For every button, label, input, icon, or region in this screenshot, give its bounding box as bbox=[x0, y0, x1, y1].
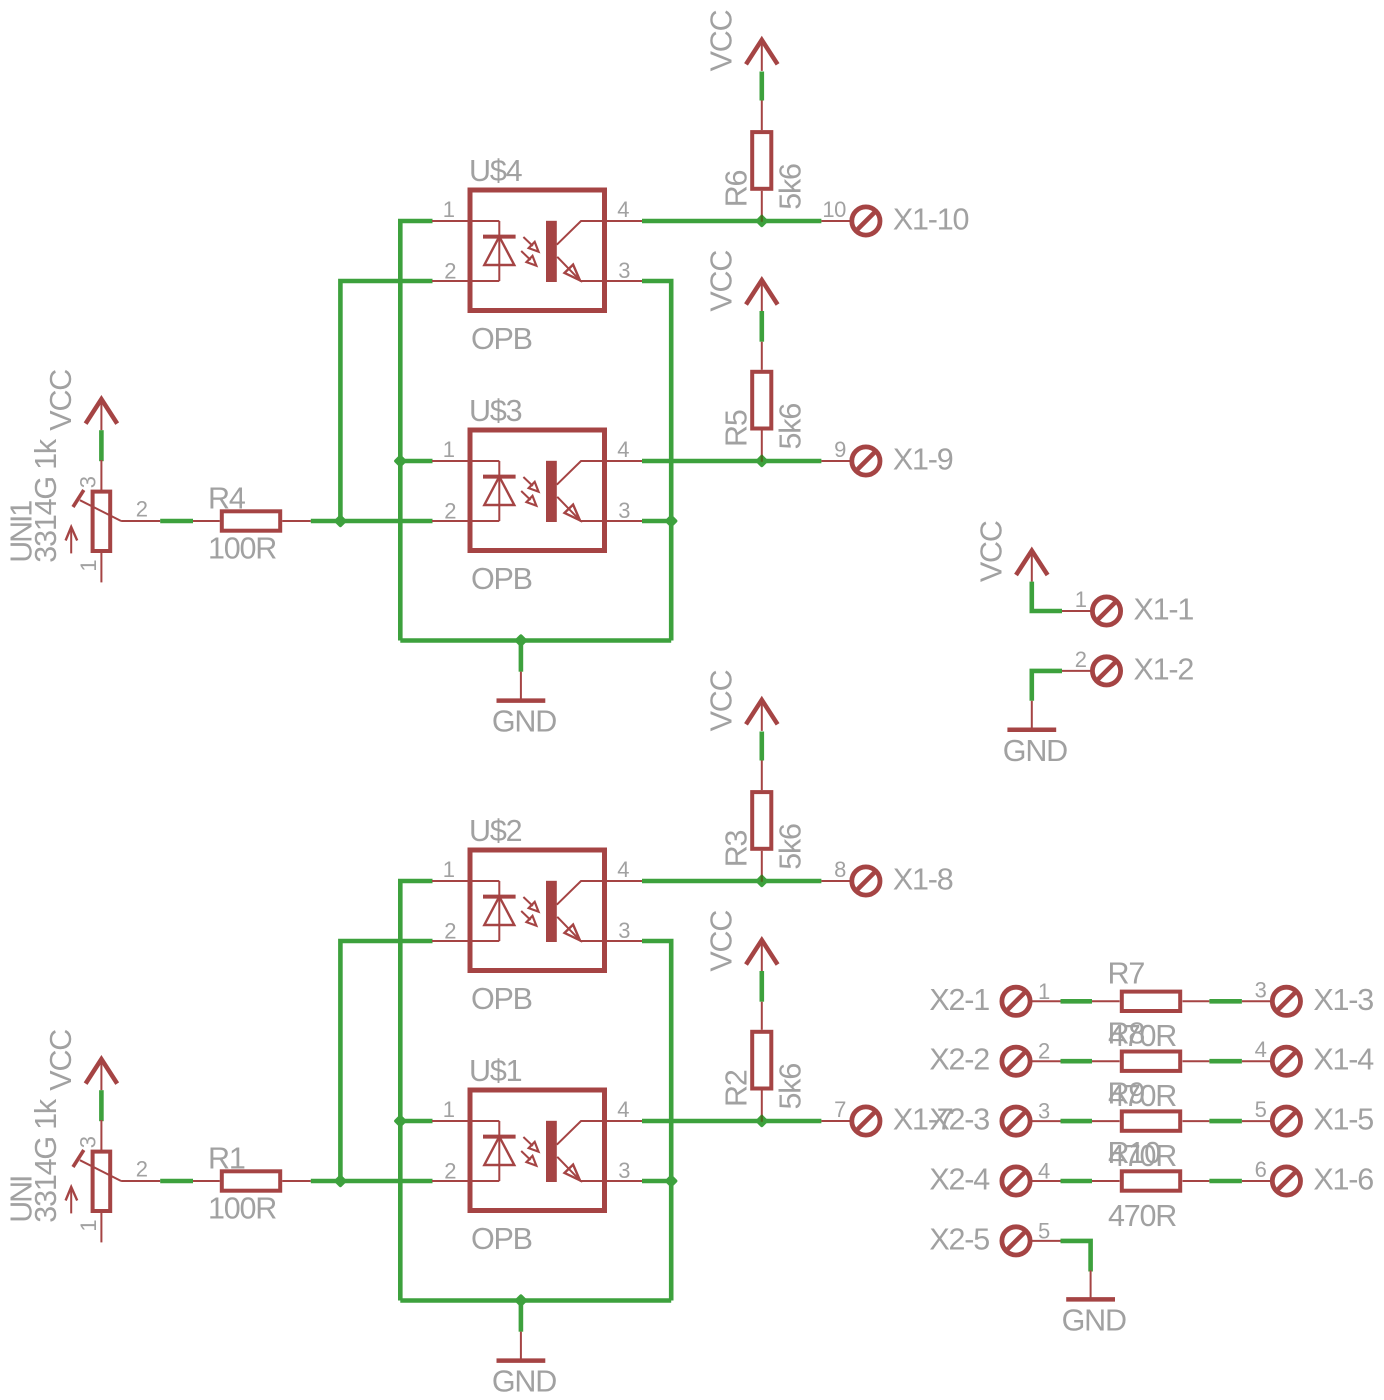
pad X2-2 bbox=[1002, 1047, 1030, 1075]
svg-text:X1-3: X1-3 bbox=[1313, 983, 1373, 1017]
svg-text:5: 5 bbox=[1255, 1097, 1267, 1122]
label X1-1 bbox=[1134, 593, 1194, 627]
svg-text:OPB: OPB bbox=[471, 562, 532, 596]
svg-text:5k6: 5k6 bbox=[773, 1064, 807, 1110]
pin stub R1 left bbox=[193, 1180, 220, 1182]
label X1-6 bbox=[1313, 1163, 1373, 1197]
optocoupler U$4 bbox=[432, 190, 643, 311]
pin 2 label of UNI1 bbox=[136, 497, 148, 522]
label R3 bbox=[720, 830, 754, 867]
resistor R4 bbox=[222, 511, 280, 530]
label GND of ground GND bbox=[492, 1365, 556, 1399]
ground GND at X1-2 bbox=[1007, 701, 1056, 730]
pin stub R2 bottom bbox=[761, 1090, 763, 1121]
wire VCC to UNI1 pin 3 bbox=[99, 430, 104, 461]
wire VCC to pad X1-1 bbox=[1032, 582, 1062, 611]
wire VCC to UNI pin 3 bbox=[99, 1090, 104, 1121]
resistor R5 bbox=[752, 372, 771, 429]
label GND of ground GND at X1-2 bbox=[1003, 734, 1067, 768]
VCC symbol above R2 bbox=[746, 940, 778, 971]
wire R9 to X1-5 bbox=[1209, 1119, 1242, 1124]
wire U$2 pin 4 to pad X1-8 bbox=[642, 879, 821, 884]
pin stub R5 top bbox=[761, 342, 763, 370]
pin stub R6 bottom bbox=[761, 191, 763, 221]
svg-text:VCC: VCC bbox=[974, 521, 1008, 582]
resistor R8 bbox=[1122, 1052, 1180, 1071]
pad X1-1 bbox=[1092, 597, 1120, 625]
pin stub pad X1-7 bbox=[821, 1120, 850, 1122]
svg-text:X1-5: X1-5 bbox=[1313, 1103, 1373, 1137]
label GND of ground GND at X2-5 bbox=[1062, 1303, 1126, 1337]
svg-text:VCC: VCC bbox=[44, 370, 78, 431]
wire U$4 pin 1 down to ground rail bbox=[400, 221, 432, 641]
svg-text:5k6: 5k6 bbox=[773, 404, 807, 450]
pad X1-9 bbox=[852, 447, 880, 475]
svg-text:3: 3 bbox=[76, 1136, 101, 1148]
svg-text:4: 4 bbox=[617, 857, 629, 882]
svg-text:R5: R5 bbox=[720, 410, 754, 447]
svg-text:X1-1: X1-1 bbox=[1134, 593, 1194, 627]
svg-text:1: 1 bbox=[443, 857, 455, 882]
svg-text:R2: R2 bbox=[720, 1070, 754, 1107]
svg-text:R7: R7 bbox=[1108, 957, 1145, 991]
pad X1-3 bbox=[1272, 987, 1300, 1015]
svg-text:3: 3 bbox=[618, 258, 630, 283]
label VCC of VCC symbol at potentiometer UNI1 bbox=[44, 370, 78, 431]
value 470R of R7 bbox=[1108, 1019, 1176, 1053]
svg-text:1: 1 bbox=[443, 437, 455, 462]
wire U$3 pin 3 to vertical rail bbox=[642, 519, 671, 524]
wire R4 to U$3 pin 2 bbox=[311, 519, 433, 524]
pin number 4 of pad X2-4 bbox=[1038, 1159, 1050, 1184]
wire R7 to X1-3 bbox=[1209, 999, 1242, 1004]
wire U$1 pin 4 to pad X1-7 bbox=[642, 1119, 821, 1124]
svg-text:VCC: VCC bbox=[704, 10, 738, 71]
label U$4 bbox=[469, 154, 523, 188]
pin stub R10 left bbox=[1092, 1180, 1120, 1182]
svg-text:X2-3: X2-3 bbox=[929, 1103, 989, 1137]
ground GND at X2-5 bbox=[1066, 1270, 1115, 1299]
svg-text:VCC: VCC bbox=[704, 670, 738, 731]
ground rail wire bbox=[400, 1298, 671, 1303]
svg-text:8: 8 bbox=[834, 857, 846, 882]
svg-text:2: 2 bbox=[1038, 1039, 1050, 1064]
optocoupler U$3 bbox=[432, 430, 643, 551]
junction at U$3 pin 3 bbox=[664, 514, 678, 528]
svg-text:GND: GND bbox=[1003, 734, 1067, 768]
pad X2-4 bbox=[1002, 1167, 1030, 1195]
pin stub pad X2-1 bbox=[1032, 1000, 1061, 1002]
pin 4 of U$1 bbox=[617, 1097, 629, 1122]
pad X2-1 bbox=[1002, 987, 1030, 1015]
label R1 bbox=[208, 1141, 245, 1175]
value 5k6 of R6 bbox=[773, 164, 807, 210]
pin 1 of U$3 bbox=[443, 437, 455, 462]
pin 2 of U$1 bbox=[444, 1158, 456, 1183]
svg-text:2: 2 bbox=[444, 1158, 456, 1183]
svg-text:U$1: U$1 bbox=[469, 1054, 522, 1088]
resistor R7 bbox=[1122, 992, 1180, 1011]
pin number 1 of pad X1-1 bbox=[1075, 587, 1087, 612]
label U$3 bbox=[469, 394, 522, 428]
pin stub R9 right bbox=[1183, 1120, 1210, 1122]
pin 3 of U$1 bbox=[618, 1158, 630, 1183]
junction at ground rail bbox=[514, 634, 528, 648]
pin number 8 of pad X1-8 bbox=[834, 857, 846, 882]
svg-text:OPB: OPB bbox=[471, 322, 532, 356]
pin stub pad X1-5 bbox=[1242, 1120, 1271, 1122]
wire X2-5 to GND bbox=[1061, 1241, 1091, 1272]
label VCC of VCC symbol at potentiometer UNI bbox=[44, 1030, 78, 1091]
wire U$4 pin 4 to pad X1-10 bbox=[642, 219, 821, 224]
svg-text:1: 1 bbox=[443, 1097, 455, 1122]
pin 3 label of UNI1 bbox=[76, 476, 101, 488]
pin stub pad X1-1 bbox=[1062, 610, 1091, 612]
label OPB of U$3 bbox=[471, 562, 532, 596]
wire junction up to U$4 pin 2 bbox=[340, 281, 432, 521]
label OPB of U$4 bbox=[471, 322, 532, 356]
junction at U$3 pin 1 bbox=[393, 454, 407, 468]
svg-text:1: 1 bbox=[1038, 979, 1050, 1004]
svg-text:GND: GND bbox=[492, 705, 556, 739]
pad X2-3 bbox=[1002, 1107, 1030, 1135]
value 3314G 1k of UNI1 bbox=[29, 438, 63, 563]
svg-text:1: 1 bbox=[1075, 587, 1087, 612]
svg-text:OPB: OPB bbox=[471, 982, 532, 1016]
label R6 bbox=[720, 170, 754, 207]
ground rail wire bbox=[400, 638, 671, 643]
pin 3 of U$3 bbox=[618, 498, 630, 523]
svg-text:R10: R10 bbox=[1108, 1136, 1161, 1170]
optocoupler U$2 bbox=[432, 850, 643, 971]
resistor R3 bbox=[752, 792, 771, 849]
wire ground rail to GND bbox=[519, 1301, 524, 1332]
pin stub pad X2-3 bbox=[1032, 1120, 1061, 1122]
potentiometer UNI1 bbox=[66, 460, 161, 582]
pin stub R3 bottom bbox=[761, 851, 763, 881]
pin 1 of U$1 bbox=[443, 1097, 455, 1122]
pad X1-2 bbox=[1092, 657, 1120, 685]
pin 1 of U$2 bbox=[443, 857, 455, 882]
pin number 2 of pad X1-2 bbox=[1075, 647, 1087, 672]
label UNI bbox=[4, 1177, 38, 1223]
wire U$1 pin 3 to vertical rail bbox=[642, 1179, 671, 1184]
pin 3 of U$4 bbox=[618, 258, 630, 283]
pin 3 label of UNI bbox=[76, 1136, 101, 1148]
wire U$2 pin 3 down to ground rail bbox=[642, 941, 671, 1301]
svg-text:3: 3 bbox=[618, 498, 630, 523]
svg-text:4: 4 bbox=[1255, 1037, 1267, 1062]
wire pad X1-2 to GND bbox=[1032, 671, 1062, 701]
ground GND bbox=[497, 672, 546, 701]
label X1-9 bbox=[893, 443, 953, 477]
wire U$2 pin 1 down to ground rail bbox=[400, 881, 432, 1301]
pin stub R1 right bbox=[282, 1180, 311, 1182]
svg-text:X2-4: X2-4 bbox=[929, 1163, 990, 1197]
value 470R of R10 bbox=[1108, 1199, 1176, 1233]
pin number 4 of pad X1-4 bbox=[1255, 1037, 1267, 1062]
pin 1 label of UNI bbox=[76, 1220, 101, 1232]
svg-text:470R: 470R bbox=[1108, 1199, 1176, 1233]
pad X1-10 bbox=[852, 207, 880, 235]
label R4 bbox=[208, 481, 246, 515]
svg-text:R3: R3 bbox=[720, 830, 754, 867]
svg-text:VCC: VCC bbox=[704, 911, 738, 972]
svg-text:5k6: 5k6 bbox=[773, 164, 807, 210]
svg-text:OPB: OPB bbox=[471, 1222, 532, 1256]
svg-text:X2-1: X2-1 bbox=[929, 983, 989, 1017]
resistor R10 bbox=[1122, 1171, 1180, 1190]
label OPB of U$2 bbox=[471, 982, 532, 1016]
wire VCC to R2 bbox=[759, 971, 764, 1002]
pin 1 of U$4 bbox=[443, 197, 455, 222]
svg-text:9: 9 bbox=[834, 437, 846, 462]
label X2-4 bbox=[929, 1163, 990, 1197]
svg-text:2: 2 bbox=[136, 497, 148, 522]
VCC symbol above R6 bbox=[746, 40, 778, 71]
label R9 bbox=[1108, 1076, 1145, 1110]
svg-text:X1-6: X1-6 bbox=[1313, 1163, 1373, 1197]
svg-text:X1-9: X1-9 bbox=[893, 443, 953, 477]
wire VCC to R3 bbox=[759, 732, 764, 761]
label U$1 bbox=[469, 1054, 522, 1088]
pin 4 of U$4 bbox=[617, 197, 629, 222]
label R7 bbox=[1108, 957, 1145, 991]
optocoupler U$1 bbox=[432, 1090, 643, 1211]
pin stub pad X2-4 bbox=[1032, 1180, 1061, 1182]
junction at R4 output bbox=[333, 514, 347, 528]
pin number 5 of pad X2-5 bbox=[1038, 1218, 1050, 1243]
svg-text:3314G 1k: 3314G 1k bbox=[29, 1098, 63, 1223]
svg-text:3: 3 bbox=[1038, 1099, 1050, 1124]
pin 1 label of UNI1 bbox=[76, 560, 101, 572]
wire ground rail to GND bbox=[519, 641, 524, 672]
pin stub pad X2-2 bbox=[1032, 1060, 1061, 1062]
value 100R of R1 bbox=[208, 1191, 276, 1225]
label X2-5 bbox=[929, 1222, 989, 1256]
pin stub pad X1-2 bbox=[1062, 670, 1091, 672]
svg-text:1: 1 bbox=[443, 197, 455, 222]
pin stub pad X1-10 bbox=[821, 220, 850, 222]
pin 2 label of UNI bbox=[136, 1157, 148, 1182]
pin stub pad X1-9 bbox=[821, 460, 850, 462]
pin stub R5 bottom bbox=[761, 430, 763, 461]
label VCC of VCC symbol at X1-1 bbox=[974, 521, 1008, 582]
pin 2 of U$4 bbox=[444, 258, 456, 283]
pin stub pad X1-3 bbox=[1242, 1000, 1271, 1002]
wire VCC to R6 bbox=[759, 72, 764, 101]
svg-text:3: 3 bbox=[618, 1158, 630, 1183]
junction R5 output bbox=[755, 454, 769, 468]
junction at U$1 pin 1 bbox=[393, 1114, 407, 1128]
VCC symbol above R3 bbox=[746, 700, 778, 731]
pin number 3 of pad X1-3 bbox=[1255, 977, 1267, 1002]
VCC symbol at potentiometer UNI1 bbox=[86, 399, 118, 430]
svg-text:100R: 100R bbox=[208, 1191, 276, 1225]
svg-text:X1-4: X1-4 bbox=[1313, 1043, 1374, 1077]
pin stub R9 left bbox=[1092, 1120, 1120, 1122]
wire X2-2 to R8 bbox=[1061, 1059, 1093, 1064]
resistor R6 bbox=[752, 132, 771, 189]
label R10 bbox=[1108, 1136, 1161, 1170]
wire VCC to R5 bbox=[759, 311, 764, 342]
pin stub R2 top bbox=[761, 1002, 763, 1030]
VCC symbol at X1-1 bbox=[1016, 551, 1048, 582]
pad X1-5 bbox=[1272, 1107, 1300, 1135]
svg-text:2: 2 bbox=[444, 918, 456, 943]
wire UNI wiper to R1 bbox=[160, 1179, 193, 1184]
pin number 3 of pad X2-3 bbox=[1038, 1099, 1050, 1124]
pin 3 of U$2 bbox=[618, 918, 630, 943]
label X1-3 bbox=[1313, 983, 1373, 1017]
value 5k6 of R2 bbox=[773, 1064, 807, 1110]
value 100R of R4 bbox=[208, 531, 276, 565]
svg-text:1: 1 bbox=[76, 560, 101, 572]
svg-text:GND: GND bbox=[1062, 1303, 1126, 1337]
label X2-2 bbox=[929, 1043, 989, 1077]
svg-text:2: 2 bbox=[444, 498, 456, 523]
wire UNI1 wiper to R4 bbox=[160, 519, 193, 524]
label X1-5 bbox=[1313, 1103, 1373, 1137]
pin number 5 of pad X1-5 bbox=[1255, 1097, 1267, 1122]
pin stub R3 top bbox=[761, 761, 763, 791]
pin 2 of U$2 bbox=[444, 918, 456, 943]
pad X1-8 bbox=[852, 867, 880, 895]
svg-text:3314G 1k: 3314G 1k bbox=[29, 438, 63, 563]
label X2-3 bbox=[929, 1103, 989, 1137]
pin stub R8 right bbox=[1183, 1060, 1210, 1062]
svg-text:X2-5: X2-5 bbox=[929, 1222, 989, 1256]
wire U$4 pin 3 down to ground rail bbox=[642, 281, 671, 641]
wire junction up to U$2 pin 2 bbox=[340, 941, 432, 1181]
wire junction to U$3 pin 1 bbox=[400, 459, 432, 464]
svg-text:R9: R9 bbox=[1108, 1076, 1145, 1110]
label X1-7 bbox=[893, 1103, 953, 1137]
svg-text:X1-10: X1-10 bbox=[893, 203, 969, 237]
pad X2-5 bbox=[1002, 1227, 1030, 1255]
label X1-8 bbox=[893, 863, 953, 897]
svg-text:R6: R6 bbox=[720, 170, 754, 207]
svg-text:2: 2 bbox=[136, 1157, 148, 1182]
pin number 6 of pad X1-6 bbox=[1255, 1157, 1267, 1182]
svg-text:4: 4 bbox=[617, 197, 629, 222]
svg-text:4: 4 bbox=[617, 1097, 629, 1122]
pad X1-4 bbox=[1272, 1047, 1300, 1075]
label R5 bbox=[720, 410, 754, 447]
label X1-4 bbox=[1313, 1043, 1374, 1077]
svg-text:6: 6 bbox=[1255, 1157, 1267, 1182]
svg-text:4: 4 bbox=[617, 437, 629, 462]
svg-text:3: 3 bbox=[1255, 977, 1267, 1002]
VCC symbol at potentiometer UNI bbox=[86, 1059, 118, 1090]
wire R8 to X1-4 bbox=[1209, 1059, 1242, 1064]
junction at ground rail bbox=[514, 1294, 528, 1308]
wire junction to U$1 pin 1 bbox=[400, 1119, 432, 1124]
wire R10 to X1-6 bbox=[1209, 1179, 1242, 1184]
VCC symbol above R5 bbox=[746, 280, 778, 311]
label VCC of VCC symbol above R5 bbox=[704, 251, 738, 312]
svg-text:X1-2: X1-2 bbox=[1134, 652, 1194, 686]
svg-text:VCC: VCC bbox=[44, 1030, 78, 1091]
junction R2 output bbox=[755, 1114, 769, 1128]
svg-text:5k6: 5k6 bbox=[773, 824, 807, 870]
pad X1-6 bbox=[1272, 1167, 1300, 1195]
junction R6 output bbox=[755, 214, 769, 228]
ground GND bbox=[497, 1332, 546, 1361]
label R8 bbox=[1108, 1016, 1145, 1050]
pin stub R7 left bbox=[1092, 1000, 1120, 1002]
svg-text:U$3: U$3 bbox=[469, 394, 522, 428]
wire U$3 pin 4 to pad X1-9 bbox=[642, 459, 821, 464]
svg-text:3: 3 bbox=[618, 918, 630, 943]
pin stub R8 left bbox=[1092, 1060, 1120, 1062]
resistor R9 bbox=[1122, 1111, 1180, 1130]
label OPB of U$1 bbox=[471, 1222, 532, 1256]
label X2-1 bbox=[929, 983, 989, 1017]
pin stub R4 right bbox=[282, 520, 311, 522]
wire R1 to U$1 pin 2 bbox=[311, 1179, 433, 1184]
wire X2-3 to R9 bbox=[1061, 1119, 1093, 1124]
pin 4 of U$2 bbox=[617, 857, 629, 882]
svg-text:R4: R4 bbox=[208, 481, 246, 515]
label VCC of VCC symbol above R2 bbox=[704, 911, 738, 972]
svg-text:7: 7 bbox=[834, 1097, 846, 1122]
pin number 9 of pad X1-9 bbox=[834, 437, 846, 462]
svg-text:U$2: U$2 bbox=[469, 814, 522, 848]
label VCC of VCC symbol above R6 bbox=[704, 10, 738, 71]
junction at U$1 pin 3 bbox=[664, 1174, 678, 1188]
junction at R1 output bbox=[333, 1174, 347, 1188]
svg-text:100R: 100R bbox=[208, 531, 276, 565]
value 470R of R8 bbox=[1108, 1079, 1176, 1113]
pin stub pad X2-5 bbox=[1032, 1240, 1061, 1242]
pin stub R4 left bbox=[193, 520, 220, 522]
svg-text:GND: GND bbox=[492, 1365, 556, 1399]
pin stub pad X1-8 bbox=[821, 880, 850, 882]
svg-text:5: 5 bbox=[1038, 1218, 1050, 1243]
pin number 2 of pad X2-2 bbox=[1038, 1039, 1050, 1064]
svg-text:U$4: U$4 bbox=[469, 154, 523, 188]
label VCC of VCC symbol above R3 bbox=[704, 670, 738, 731]
value 470R of R9 bbox=[1108, 1139, 1176, 1173]
value 5k6 of R5 bbox=[773, 404, 807, 450]
value 5k6 of R3 bbox=[773, 824, 807, 870]
pin stub R6 top bbox=[761, 101, 763, 131]
pin number 7 of pad X1-7 bbox=[834, 1097, 846, 1122]
svg-text:X2-2: X2-2 bbox=[929, 1043, 989, 1077]
wire X2-1 to R7 bbox=[1061, 999, 1093, 1004]
label U$2 bbox=[469, 814, 522, 848]
junction R3 output bbox=[755, 874, 769, 888]
svg-text:R1: R1 bbox=[208, 1141, 245, 1175]
label R2 bbox=[720, 1070, 754, 1107]
pin stub pad X1-6 bbox=[1242, 1180, 1271, 1182]
value 3314G 1k of UNI bbox=[29, 1098, 63, 1223]
resistor R2 bbox=[752, 1032, 771, 1089]
pad X1-7 bbox=[852, 1107, 880, 1135]
pin stub R7 right bbox=[1183, 1000, 1210, 1002]
svg-text:R8: R8 bbox=[1108, 1016, 1145, 1050]
resistor R1 bbox=[222, 1171, 280, 1190]
wire X2-4 to R10 bbox=[1061, 1179, 1093, 1184]
pin 2 of U$3 bbox=[444, 498, 456, 523]
pin 4 of U$3 bbox=[617, 437, 629, 462]
svg-text:2: 2 bbox=[1075, 647, 1087, 672]
svg-text:3: 3 bbox=[76, 476, 101, 488]
svg-text:X1-8: X1-8 bbox=[893, 863, 953, 897]
label X1-10 bbox=[893, 203, 969, 237]
svg-text:10: 10 bbox=[822, 197, 846, 222]
